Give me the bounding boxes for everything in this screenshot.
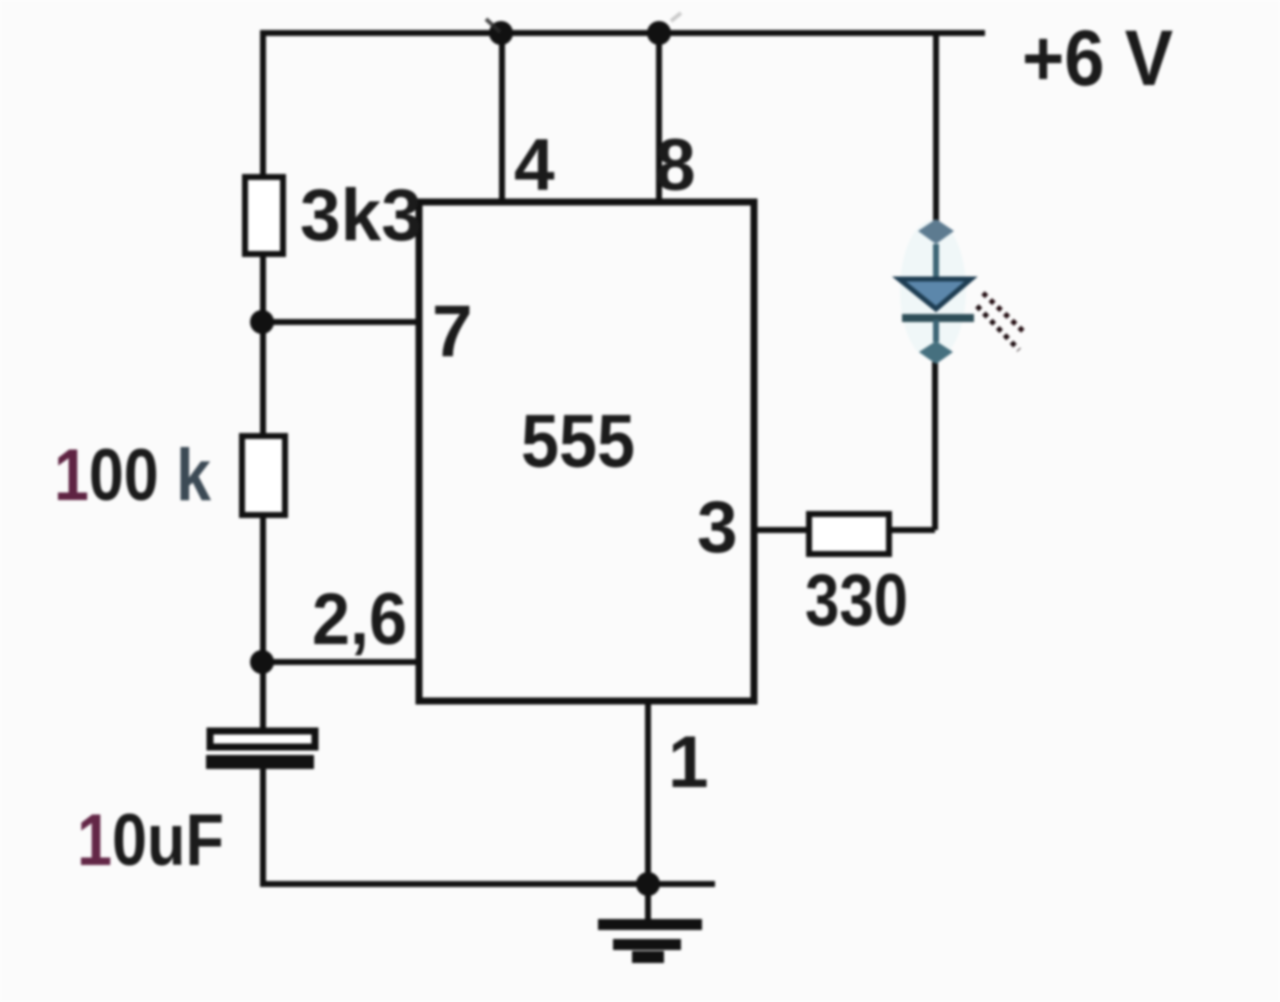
node C junction dot [636, 872, 660, 896]
svg-text:3: 3 [697, 487, 738, 568]
ground bar 2 [613, 939, 681, 950]
LED D1 triangle [899, 279, 971, 309]
wire: LED inner anode [933, 244, 939, 280]
wire: LED cathode riser [932, 362, 938, 530]
svg-text:100 k: 100 k [54, 435, 211, 516]
IC U1 555 body [419, 202, 754, 701]
wire: node B to pin 2,6 [262, 659, 421, 665]
resistor R 100k [242, 436, 285, 515]
node: rail junction at pin 4 [489, 21, 513, 45]
LED D1 cyan halo [900, 220, 966, 360]
LED D1 cathode bar [902, 314, 974, 322]
capacitor C1 top plate [210, 731, 315, 747]
wire: capacitor to bottom rail [260, 769, 266, 884]
wire: node B down to capacitor [260, 662, 266, 733]
LED light arrow 2 [977, 306, 1019, 350]
wire: left vertical from rail to R1 top [260, 30, 266, 180]
wire: pin 4 to rail [499, 33, 505, 202]
capacitor C1 bottom plate [206, 755, 314, 769]
svg-text:3k3: 3k3 [300, 175, 422, 256]
LED D1 arrowhead top [918, 219, 954, 244]
svg-text:2,6: 2,6 [312, 579, 407, 660]
wire: pin 3 out of IC [754, 527, 812, 533]
svg-text:1: 1 [668, 722, 709, 803]
wire: node A to pin 7 [262, 319, 421, 325]
LED D1 arrowhead bottom [919, 341, 953, 364]
node A junction dot [250, 310, 274, 334]
wire: LED anode drop from rail [933, 30, 939, 224]
wire: ground stub [645, 884, 651, 921]
wire: LED inner cathode [933, 320, 939, 342]
wire: pin 1 from IC bottom to ground [645, 701, 651, 884]
svg-text:555: 555 [521, 399, 635, 483]
ground bar 3 [632, 951, 664, 963]
node B junction dot [250, 650, 274, 674]
svg-text:10uF: 10uF [77, 800, 224, 881]
svg-text:+6 V: +6 V [1022, 13, 1173, 102]
svg-text:8: 8 [655, 125, 696, 206]
ground bar 1 [598, 919, 702, 930]
resistor R 3k3 [245, 177, 283, 254]
node: rail junction at pin 8 [647, 21, 671, 45]
svg-text:4: 4 [514, 125, 555, 206]
wire: 100k bottom to node B [260, 515, 266, 666]
svg-text:7: 7 [432, 291, 473, 372]
wire: bottom rail [260, 881, 715, 887]
svg-text:330: 330 [805, 560, 908, 641]
wire: node A down to 100k top [260, 322, 266, 440]
wire: 330 to LED cathode riser [886, 527, 935, 533]
resistor R 330 [809, 514, 889, 554]
wire: pin 8 to rail [656, 33, 662, 202]
wire: +6V top rail [260, 30, 985, 36]
wire: 3k3 bottom to node A [260, 254, 266, 330]
LED light arrow 1 [983, 293, 1024, 332]
